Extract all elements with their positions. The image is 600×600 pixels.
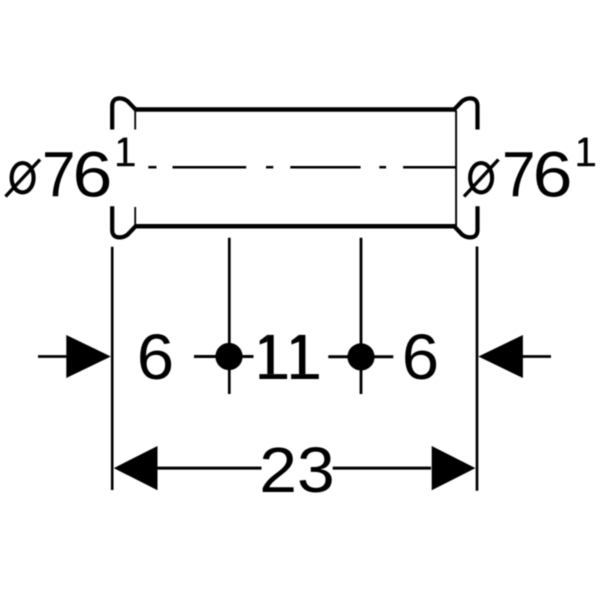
svg-text:23: 23 <box>259 434 334 506</box>
svg-text:7: 7 <box>42 140 75 211</box>
svg-text:6: 6 <box>533 139 573 211</box>
svg-text:7: 7 <box>502 140 535 211</box>
svg-text:6: 6 <box>402 321 439 392</box>
svg-text:6: 6 <box>137 321 174 392</box>
svg-text:6: 6 <box>73 139 113 211</box>
